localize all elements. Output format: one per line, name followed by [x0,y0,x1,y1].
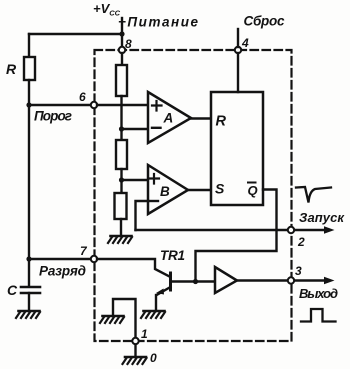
ground internal bracket [100,316,124,323]
pin 3 [288,277,294,283]
resistor R [24,57,35,80]
wire Vcc stub [121,18,123,47]
resistor divider top [116,65,127,96]
wire divider lower middle [120,169,122,193]
wire B output to S input [188,189,211,191]
wire internal ground bracket [113,299,136,338]
wire C to ground [28,293,30,311]
svg-text:3: 3 [295,264,302,278]
pin 6 [91,102,97,108]
wire buffer to pin 3 [238,279,288,281]
wire pin4 to flip-flop [237,53,239,92]
svg-text:R: R [6,61,17,77]
plus sign B [150,174,160,184]
wire divider upper middle [120,96,122,140]
node threshold junction [26,102,31,107]
minus sign A [152,127,161,129]
node Vcc junction [119,31,124,36]
op-amp comparator B [148,165,188,214]
wire R bottom to threshold node [28,80,30,105]
wire reset stub [237,29,239,47]
wire pin8 to divider [121,53,123,65]
svg-text:+Питание: +Питание [118,15,198,30]
pin 8 [119,47,125,53]
svg-text:Разряд: Разряд [39,264,86,279]
svg-text:A: A [163,111,174,126]
node divider tap B [119,177,124,182]
pin 4 [235,47,241,53]
svg-text:8: 8 [125,37,132,51]
node discharge junction [26,256,31,261]
op-amp output buffer [215,267,237,293]
wire base to output buffer [196,280,216,282]
pin 2 [288,227,294,233]
capacitor C [21,287,40,293]
wire discharge to pin 7 [29,258,91,260]
svg-text:+VCC: +VCC [93,1,121,18]
wire A output to R input [191,117,211,119]
transistor TR1 [97,259,194,311]
wire pin6 to comparator A plus input [97,104,148,106]
arrow trigger output [295,229,327,231]
pin 1 [132,338,138,344]
resistor divider bottom [115,193,127,219]
overline of Q [247,182,257,184]
node base junction [193,279,198,284]
svg-text:S: S [215,181,225,197]
ground below divider [108,236,132,243]
svg-text:2: 2 [297,235,305,249]
wire divider to ground [120,219,122,236]
op-amp comparator A [148,92,191,143]
flip-flop U1 [211,92,263,205]
wire pin1 to external ground [134,345,136,358]
wire tap to comparator B plus input [122,179,149,181]
ground node 0 [123,357,147,364]
resistor divider middle [116,140,127,169]
svg-text:0: 0 [150,351,157,365]
plus sign A [152,101,162,111]
ground below C [16,311,40,318]
svg-text:4: 4 [241,36,249,50]
node divider tap A [119,126,124,131]
svg-text:Сброс: Сброс [244,14,285,29]
wire left rail lower [28,105,30,286]
svg-text:1: 1 [141,327,148,341]
waveform output pulse [301,309,336,322]
wire trigger line to pin 2 [136,229,289,231]
svg-text:B: B [160,184,170,199]
svg-text:Запуск: Запуск [299,210,345,225]
wire B minus loop to trigger line [136,201,149,230]
svg-text:6: 6 [79,90,86,104]
wire threshold to pin 6 [29,104,91,106]
svg-text:C: C [7,282,18,298]
waveform trigger pulse [296,187,331,203]
wire Q-bar loop [196,190,277,282]
wire tap to comparator A minus input [122,128,149,130]
wire top rail from R to Vcc line [29,33,122,35]
arrow output [295,279,327,281]
ground below TR1 emitter [141,311,165,318]
wire left rail upper [28,34,30,57]
svg-text:Q: Q [248,183,258,198]
svg-text:Выход: Выход [299,286,338,301]
svg-text:TR1: TR1 [160,248,185,263]
svg-text:7: 7 [80,244,88,258]
svg-text:Порог: Порог [34,109,72,124]
dashed IC boundary box [95,50,292,341]
svg-text:R: R [216,114,227,130]
minus sign B [150,200,158,202]
pin 7 [91,256,97,262]
